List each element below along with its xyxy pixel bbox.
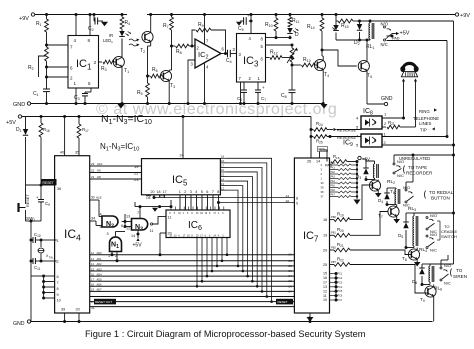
gate N2 bbox=[100, 213, 124, 230]
svg-text:2: 2 bbox=[184, 190, 186, 194]
svg-text:A8: A8 bbox=[97, 175, 101, 179]
svg-text:8: 8 bbox=[217, 190, 219, 194]
diode D6 bbox=[412, 264, 425, 286]
relay RL5 coil bbox=[422, 247, 454, 292]
svg-text:12: 12 bbox=[323, 289, 327, 293]
svg-text:15: 15 bbox=[323, 272, 327, 276]
resistor R14 bbox=[307, 13, 324, 52]
IR beam arrows bbox=[129, 39, 140, 47]
transistor T2 photo bbox=[140, 13, 153, 83]
svg-text:N/O: N/O bbox=[381, 22, 389, 27]
svg-text:30: 30 bbox=[91, 196, 95, 200]
svg-text:N/C: N/C bbox=[381, 42, 388, 47]
svg-text:40: 40 bbox=[60, 151, 64, 155]
LED1 IR bbox=[103, 31, 131, 57]
wire phone right lead bbox=[414, 79, 417, 128]
svg-text:3: 3 bbox=[107, 232, 109, 236]
svg-text:PAD: PAD bbox=[392, 37, 400, 41]
diode D4 bbox=[378, 188, 390, 206]
LED2 bbox=[287, 28, 299, 39]
relay RL4 coil bbox=[406, 213, 454, 253]
svg-text:8: 8 bbox=[57, 287, 59, 291]
resistor R5 bbox=[137, 75, 149, 106]
svg-text:8: 8 bbox=[296, 196, 298, 200]
RL4 contacts lower bbox=[426, 232, 437, 253]
svg-text:17: 17 bbox=[163, 190, 167, 194]
wire +9V top rail bbox=[31, 13, 458, 16]
svg-text:25: 25 bbox=[323, 263, 327, 267]
svg-text:9: 9 bbox=[296, 202, 298, 206]
svg-text:+: + bbox=[262, 85, 265, 90]
svg-text:PA6: PA6 bbox=[331, 189, 336, 192]
IC4 bottom ground pins bbox=[63, 313, 80, 323]
capacitor C3 bbox=[74, 88, 91, 105]
RL4 contacts upper bbox=[426, 213, 437, 234]
svg-text:PC2: PC2 bbox=[338, 277, 343, 280]
node +5V terminal right bbox=[357, 156, 370, 161]
wire N2 out to N3 bbox=[122, 214, 132, 227]
resistor R9 feedback bbox=[192, 22, 227, 55]
node TIP label bbox=[420, 127, 435, 132]
wire CS line A1 8 bbox=[153, 194, 299, 201]
svg-text:24: 24 bbox=[180, 154, 184, 158]
IC8 left pins bbox=[356, 116, 359, 130]
svg-text:+9V: +9V bbox=[19, 16, 29, 22]
wire N3 pin7 up bbox=[139, 205, 142, 218]
resistor R12 bbox=[266, 50, 293, 60]
gate N3 bbox=[126, 211, 153, 238]
svg-text:RESET: RESET bbox=[26, 194, 30, 207]
resistor R3 bbox=[99, 60, 117, 72]
crystal XTAL bbox=[38, 240, 54, 261]
node TO REDIAL BUTTON bbox=[425, 190, 454, 201]
transistor T9 bbox=[420, 285, 436, 322]
node N1-N3=IC10 text big bbox=[101, 113, 152, 126]
resistor R7 bbox=[163, 13, 173, 70]
wire LED3 D2 RL1 bottoms bbox=[336, 39, 370, 61]
svg-text:GND: GND bbox=[13, 321, 25, 327]
svg-text:D0: D0 bbox=[289, 253, 293, 257]
svg-text:11: 11 bbox=[150, 229, 154, 233]
svg-text:4: 4 bbox=[100, 213, 102, 217]
capacitor C11 bbox=[31, 258, 57, 271]
node TO CRADLE SWITCH bbox=[437, 221, 458, 240]
svg-text:3: 3 bbox=[190, 190, 192, 194]
node RING label bbox=[419, 108, 437, 114]
svg-text:PB1: PB1 bbox=[331, 231, 336, 235]
svg-text:PA3: PA3 bbox=[331, 176, 336, 179]
svg-text:4: 4 bbox=[195, 190, 197, 194]
svg-text:D4: D4 bbox=[289, 274, 293, 278]
switch SW1 bbox=[19, 185, 36, 222]
IC7 PA pins and resistors bbox=[321, 162, 361, 205]
wire IC3 pin8 bbox=[266, 37, 291, 39]
svg-text:ALE: ALE bbox=[96, 196, 102, 200]
svg-text:20: 20 bbox=[76, 308, 80, 312]
svg-text:N/C: N/C bbox=[430, 248, 437, 253]
svg-text:13: 13 bbox=[323, 285, 327, 289]
diode D3 bbox=[356, 163, 369, 181]
svg-text:D2: D2 bbox=[289, 264, 293, 268]
svg-text:+5V: +5V bbox=[133, 243, 143, 249]
svg-text:SWITCH: SWITCH bbox=[441, 234, 457, 239]
op-amp IC2 bbox=[195, 39, 221, 68]
svg-text:35: 35 bbox=[75, 151, 79, 155]
svg-text:N/O: N/O bbox=[430, 232, 437, 237]
svg-text:A1: A1 bbox=[286, 194, 290, 198]
op IC1 box bbox=[68, 36, 99, 89]
capacitor C9 bbox=[36, 185, 50, 221]
svg-text:TO: TO bbox=[456, 268, 463, 273]
resistor R18 bbox=[325, 154, 359, 168]
svg-text:RING: RING bbox=[419, 109, 430, 114]
svg-text:20: 20 bbox=[323, 248, 327, 252]
resistor R2 bbox=[28, 44, 48, 78]
svg-text:N/O: N/O bbox=[430, 213, 437, 218]
resistor R16 bbox=[39, 115, 50, 187]
IC6 top pin labels bbox=[169, 207, 224, 238]
svg-text:+: + bbox=[247, 13, 250, 18]
capacitor C2 bbox=[88, 13, 108, 32]
svg-text:26: 26 bbox=[307, 160, 311, 164]
wire +5V rail bbox=[6, 115, 311, 126]
telephone symbol bbox=[400, 62, 418, 77]
svg-text:6: 6 bbox=[206, 190, 208, 194]
svg-text:Figure 1 : Circuit Diagram of: Figure 1 : Circuit Diagram of Microproce… bbox=[85, 329, 366, 339]
IC5 OE CS wires bbox=[135, 195, 173, 212]
IC5 right pins bbox=[220, 155, 227, 191]
svg-text:AD7: AD7 bbox=[97, 288, 103, 292]
IC6 pin20 stub bbox=[159, 232, 172, 257]
resistor R24 bbox=[311, 121, 333, 131]
node TO TAPE RECORDER bbox=[404, 165, 433, 176]
wire ALE to gate bbox=[90, 196, 102, 217]
svg-text:D6: D6 bbox=[289, 284, 293, 288]
wire +9V right drop bbox=[452, 21, 455, 247]
svg-text:+9V: +9V bbox=[460, 13, 470, 19]
svg-text:36: 36 bbox=[57, 187, 61, 191]
IC3 pin wires bbox=[239, 13, 264, 81]
svg-text:AD0: AD0 bbox=[97, 251, 103, 255]
caption text bbox=[85, 329, 366, 339]
wire data address bus lines bbox=[90, 255, 295, 307]
svg-text:18: 18 bbox=[323, 218, 327, 222]
svg-text:PB7: PB7 bbox=[331, 260, 336, 264]
svg-text:22: 22 bbox=[91, 169, 95, 173]
svg-text:RESET: RESET bbox=[43, 181, 54, 185]
svg-text:20: 20 bbox=[151, 190, 155, 194]
IC4 keypad pins 6-10 bbox=[31, 275, 55, 300]
node TO SIREN bbox=[451, 268, 468, 279]
resistor R11 bbox=[288, 13, 299, 27]
wire +5V to RL2 bbox=[362, 159, 366, 163]
wire N3 pin14 +5V bbox=[133, 230, 143, 249]
optocoupler IC9 bbox=[343, 134, 382, 148]
node RESET OUT label bbox=[91, 299, 293, 310]
IC8 pin wires right bbox=[382, 112, 404, 128]
transistor T4 bbox=[314, 50, 329, 105]
wire T5 emitter to GND bbox=[367, 96, 393, 106]
svg-text:31: 31 bbox=[91, 306, 95, 310]
svg-text:13: 13 bbox=[126, 215, 130, 219]
optocoupler IC8 bbox=[361, 108, 382, 129]
LED3 bbox=[332, 21, 339, 40]
wire pin34 to gate bbox=[90, 217, 102, 226]
svg-text:RESET OUT: RESET OUT bbox=[95, 300, 112, 304]
svg-text:PC0: PC0 bbox=[319, 148, 325, 152]
wire T4 collector to T5 base bbox=[322, 50, 357, 66]
op IC4 box microcontroller bbox=[55, 156, 90, 313]
wire PAD from N/C bbox=[387, 37, 448, 137]
svg-text:AD6: AD6 bbox=[97, 283, 103, 287]
node REVERSE 1 bbox=[334, 128, 362, 133]
svg-text:AD4: AD4 bbox=[97, 272, 103, 276]
svg-text:RESET: RESET bbox=[278, 300, 288, 304]
svg-text:AD3: AD3 bbox=[97, 267, 103, 271]
RL5 contacts bbox=[440, 255, 451, 286]
svg-text:N/O: N/O bbox=[403, 185, 410, 190]
resistor R13 bbox=[292, 57, 317, 67]
svg-text:A0: A0 bbox=[286, 199, 290, 203]
svg-text:D3: D3 bbox=[289, 269, 293, 273]
resistor R8 bbox=[172, 44, 196, 55]
svg-text:1: 1 bbox=[57, 239, 59, 243]
svg-text:PB0: PB0 bbox=[331, 215, 336, 219]
op IC6 box bbox=[166, 210, 230, 238]
svg-text:PC1: PC1 bbox=[338, 273, 343, 276]
IC5 to IC6 wires bbox=[180, 195, 220, 210]
capacitor C4 bbox=[221, 47, 237, 64]
svg-text:14: 14 bbox=[316, 160, 320, 164]
svg-text:21: 21 bbox=[91, 175, 95, 179]
transistor T1 bbox=[113, 39, 129, 106]
svg-text:N/O: N/O bbox=[444, 263, 451, 268]
IC7 ground pin 7 bbox=[307, 313, 314, 322]
svg-text:6: 6 bbox=[121, 224, 123, 228]
svg-text:PC3: PC3 bbox=[338, 281, 343, 284]
svg-text:N/C: N/C bbox=[403, 203, 410, 208]
svg-text:19: 19 bbox=[134, 164, 139, 169]
svg-text:10: 10 bbox=[57, 299, 61, 303]
svg-text:AD1: AD1 bbox=[97, 257, 103, 261]
IC5 bottom pin labels bbox=[151, 190, 220, 194]
node N1-N3=IC10 text small bbox=[100, 142, 139, 153]
svg-text:AD5: AD5 bbox=[97, 278, 103, 282]
wire IC3 pin5 bbox=[266, 44, 294, 47]
svg-text:18: 18 bbox=[157, 190, 161, 194]
svg-text:D1: D1 bbox=[289, 259, 293, 263]
svg-text:11: 11 bbox=[323, 294, 327, 298]
relay RL1 coil bbox=[366, 21, 374, 50]
svg-text:6: 6 bbox=[57, 275, 59, 279]
svg-text:PA5: PA5 bbox=[331, 185, 336, 188]
svg-text:N/C: N/C bbox=[444, 281, 451, 286]
node TELEPHONE LINES label bbox=[413, 116, 439, 126]
resistor R1 bbox=[36, 13, 48, 45]
transistor T8 bbox=[402, 248, 420, 267]
node bus AD labels bbox=[91, 251, 102, 292]
svg-text:5: 5 bbox=[100, 225, 102, 229]
diode D1 bbox=[16, 117, 28, 186]
svg-text:7: 7 bbox=[212, 190, 214, 194]
svg-text:9: 9 bbox=[57, 293, 59, 297]
transistor T5 bbox=[358, 60, 372, 104]
svg-text:PA0: PA0 bbox=[331, 162, 336, 165]
wire sub rail 9V bbox=[358, 20, 454, 23]
capacitor C10 bbox=[31, 232, 57, 243]
svg-text:TAL: TAL bbox=[49, 255, 54, 259]
wire A10 A9 A8 bbox=[90, 162, 142, 182]
svg-text:A10: A10 bbox=[97, 162, 103, 166]
svg-text:7: 7 bbox=[137, 211, 139, 215]
svg-text:PA2: PA2 bbox=[331, 171, 336, 174]
svg-text:TO TAPE: TO TAPE bbox=[408, 165, 427, 170]
diode D5 bbox=[398, 213, 409, 249]
svg-text:12: 12 bbox=[126, 227, 130, 231]
op IC3 box bbox=[237, 34, 266, 83]
IC9 pin wires right bbox=[382, 132, 455, 147]
wire N1 inputs to bus bbox=[111, 252, 119, 263]
svg-text:23: 23 bbox=[134, 177, 139, 182]
wire GND bottom rail bbox=[13, 320, 433, 327]
svg-text:+5V: +5V bbox=[400, 31, 410, 37]
IC7 PB2 R21b bbox=[323, 242, 408, 255]
svg-text:39: 39 bbox=[61, 308, 65, 312]
svg-text:7: 7 bbox=[57, 281, 59, 285]
transistor T3 bbox=[160, 70, 175, 105]
ground symbols on GND rail bbox=[118, 104, 328, 109]
resistor R4 bbox=[120, 13, 130, 31]
resistor R21 bbox=[387, 120, 416, 129]
svg-text:PC7: PC7 bbox=[338, 299, 343, 302]
capacitor C5 bbox=[236, 13, 253, 32]
svg-text:14: 14 bbox=[131, 234, 135, 238]
wire N1 out bbox=[116, 225, 127, 236]
svg-text:17: 17 bbox=[323, 281, 327, 285]
wire phone left lead bbox=[402, 79, 405, 120]
wire SW1 bottom bbox=[26, 220, 42, 322]
svg-text:D7: D7 bbox=[289, 289, 293, 293]
svg-text:22: 22 bbox=[134, 171, 139, 176]
svg-text:5: 5 bbox=[201, 190, 203, 194]
svg-text:2: 2 bbox=[57, 260, 59, 264]
resistor R6 bbox=[148, 67, 164, 78]
gate N1 vertical bbox=[107, 232, 122, 258]
svg-text:REVERSE: REVERSE bbox=[337, 135, 356, 140]
svg-text:A9: A9 bbox=[97, 169, 101, 173]
wire IC5 data staircase bbox=[227, 158, 273, 303]
preset VR1 bbox=[287, 45, 298, 65]
svg-text:PA4: PA4 bbox=[331, 180, 336, 183]
RL3 contacts bbox=[403, 154, 415, 208]
svg-text:PB2: PB2 bbox=[331, 245, 336, 249]
IC7 left pin labels D0-D7 bbox=[289, 253, 293, 294]
wire RL1 common +5V bbox=[387, 31, 410, 38]
relay RL3 coil bbox=[387, 188, 416, 212]
IC4 pin number labels bbox=[57, 151, 80, 312]
svg-text:1: 1 bbox=[179, 190, 181, 194]
transistor T7 bbox=[378, 205, 400, 224]
svg-text:34: 34 bbox=[91, 217, 95, 221]
svg-text:+5V: +5V bbox=[6, 120, 16, 126]
transistor T6 bbox=[369, 180, 395, 198]
capacitor C1 bbox=[33, 76, 50, 106]
IC7 PB1 R20 bbox=[323, 212, 388, 238]
svg-text:LINES: LINES bbox=[419, 121, 432, 126]
capacitor C7 bbox=[255, 82, 266, 105]
capacitor C8 bbox=[281, 64, 296, 106]
svg-text:19: 19 bbox=[323, 234, 327, 238]
wire A0 line 9 bbox=[219, 199, 299, 206]
resistor R10 bbox=[265, 13, 278, 39]
IC6 bottom pin wires to bus bbox=[196, 238, 229, 288]
svg-text:TIP: TIP bbox=[420, 128, 427, 133]
RL1 contacts bbox=[381, 22, 393, 48]
svg-text:D: D bbox=[295, 32, 299, 38]
svg-text:PC6: PC6 bbox=[338, 295, 343, 298]
IC7 PB0 R19 bbox=[323, 185, 369, 222]
svg-text:11: 11 bbox=[168, 216, 172, 220]
node REVERSE 2 bbox=[337, 135, 356, 140]
svg-text:PA1: PA1 bbox=[331, 167, 336, 170]
op IC7 box bbox=[294, 158, 329, 313]
svg-text:TO REDIAL: TO REDIAL bbox=[429, 190, 454, 195]
wire GND rail upper bbox=[13, 102, 324, 108]
wire +5V to R24 R25 bbox=[310, 117, 313, 159]
wire pin40 bbox=[63, 115, 66, 156]
IC7 PB7 R22 bbox=[323, 256, 425, 293]
node RESET line bbox=[26, 179, 62, 191]
wire N3 out to IC6 bbox=[151, 216, 172, 226]
svg-text:PC5: PC5 bbox=[338, 290, 343, 293]
IC9 left pins bbox=[356, 134, 359, 148]
svg-text:REVERSE: REVERSE bbox=[337, 128, 356, 133]
resistor R25 bbox=[311, 135, 361, 145]
capacitor C6 bbox=[237, 82, 247, 105]
resistor R15 bbox=[335, 13, 358, 29]
svg-text:N/C: N/C bbox=[397, 173, 404, 178]
svg-text:N/O: N/O bbox=[397, 159, 404, 164]
relay RL2 coil bbox=[366, 161, 395, 185]
svg-text:OE: OE bbox=[146, 196, 152, 200]
svg-text:23: 23 bbox=[91, 162, 95, 166]
svg-text:RECORDER: RECORDER bbox=[406, 171, 433, 176]
IC7 top pins bbox=[307, 137, 328, 164]
IC7 PC pins bbox=[323, 272, 343, 303]
svg-text:BUTTON: BUTTON bbox=[431, 196, 450, 201]
svg-text:10: 10 bbox=[323, 298, 327, 302]
diode D2 bbox=[354, 21, 362, 46]
svg-text:SIREN: SIREN bbox=[453, 274, 467, 279]
node +9V labels bbox=[19, 13, 470, 22]
op IC5 box bbox=[142, 159, 221, 195]
svg-text:AD2: AD2 bbox=[97, 262, 103, 266]
IC2 pin wires bbox=[187, 13, 225, 105]
wire unregulated bbox=[394, 155, 454, 161]
IC5 pin24 wire bbox=[180, 115, 185, 159]
RL2 contacts bbox=[393, 155, 404, 178]
IC3 pin7 ground wire bbox=[239, 82, 242, 105]
svg-text:GND: GND bbox=[381, 96, 393, 102]
svg-text:GND: GND bbox=[13, 102, 25, 108]
svg-text:PA7: PA7 bbox=[331, 194, 336, 197]
IC1 pin wires bbox=[47, 13, 97, 86]
resistor R17 bbox=[77, 115, 89, 156]
svg-text:PC4: PC4 bbox=[338, 286, 343, 289]
svg-text:D5: D5 bbox=[289, 279, 293, 283]
